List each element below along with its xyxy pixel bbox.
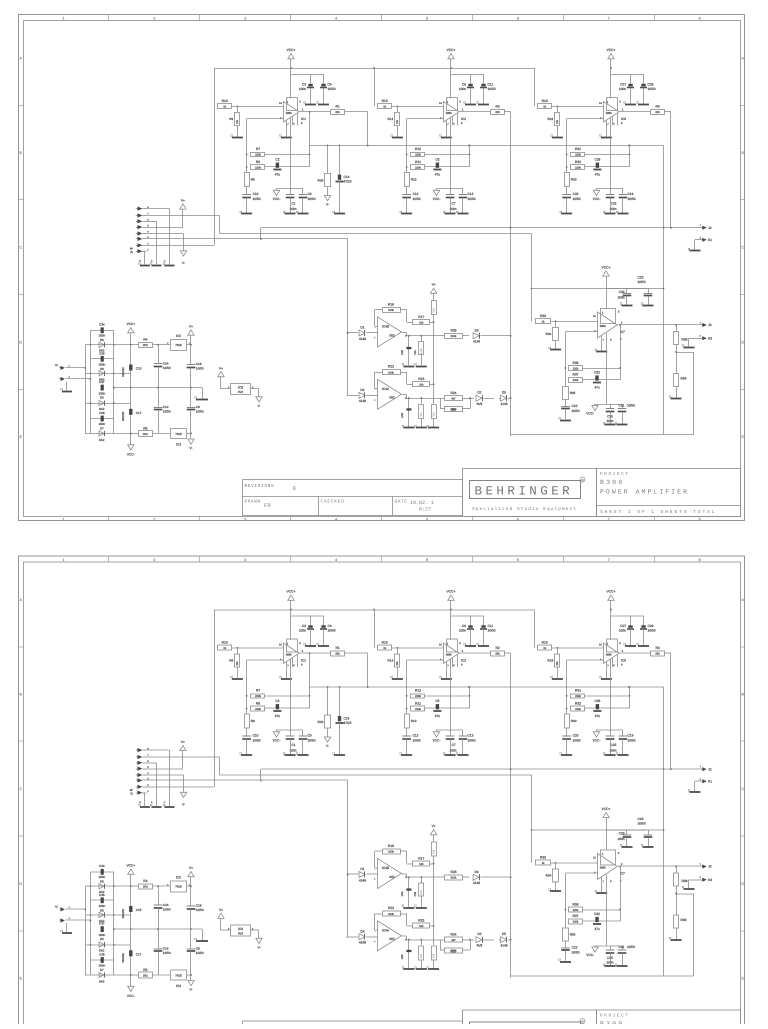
schematic sheet page 2 (same drawing, second page)	[18, 556, 745, 1029]
schematic sheet page 1	[18, 15, 745, 522]
